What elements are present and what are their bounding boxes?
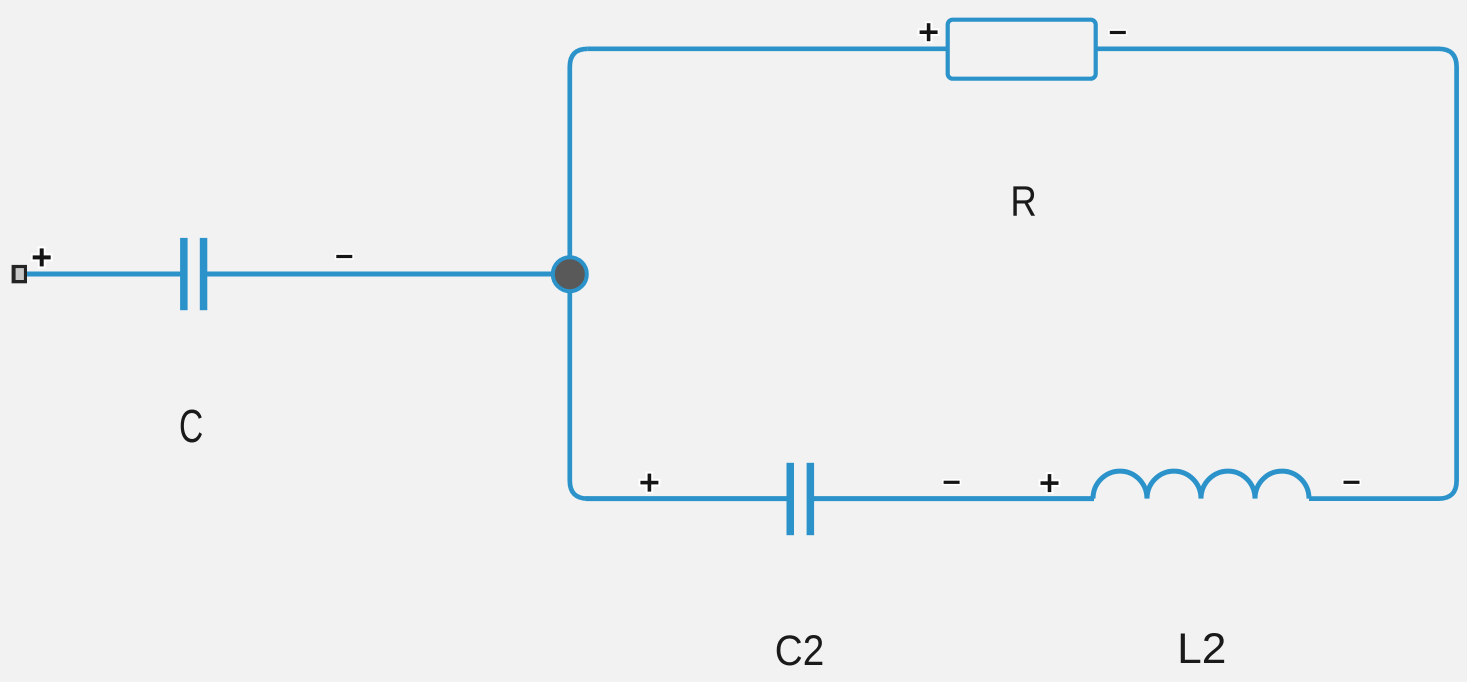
capacitor C2: [787, 463, 815, 535]
capacitor C: [180, 238, 207, 310]
label − (resistor R right): [1108, 29, 1127, 35]
wire: top side right segment (resistor to top-right corner) + right vertical + bottom-right corner: [1096, 49, 1457, 499]
wire: bottom side, bottom-left corner to C2 left plate: [586, 496, 789, 501]
terminal (input pin): [12, 265, 27, 283]
label + (inductor L2 left): [1039, 472, 1061, 494]
resistor R: [948, 20, 1096, 79]
label − (inductor L2 right): [1342, 479, 1361, 485]
wire: vertical branch through node (top corner to bottom corner of loop): [570, 49, 588, 499]
wire: terminal to capacitor C left plate: [26, 272, 184, 277]
inductor L2: [1093, 471, 1309, 499]
svg-text:R: R: [1010, 178, 1036, 225]
svg-text:C2: C2: [775, 626, 824, 674]
wire: bottom side, C2 right plate to inductor start: [812, 496, 1094, 501]
node junction: [553, 257, 587, 291]
label − (capacitor C2 right): [942, 479, 961, 485]
label + (resistor R left): [918, 21, 940, 43]
svg-text:L2: L2: [1177, 625, 1226, 673]
wire: capacitor C right plate to node: [204, 272, 568, 277]
wire: top side left segment (corner to resistor): [588, 46, 948, 51]
label + (capacitor C2 left): [638, 472, 660, 494]
label − (capacitor C): [335, 253, 354, 259]
svg-text:C: C: [179, 401, 203, 452]
label + (terminal): [31, 246, 53, 268]
